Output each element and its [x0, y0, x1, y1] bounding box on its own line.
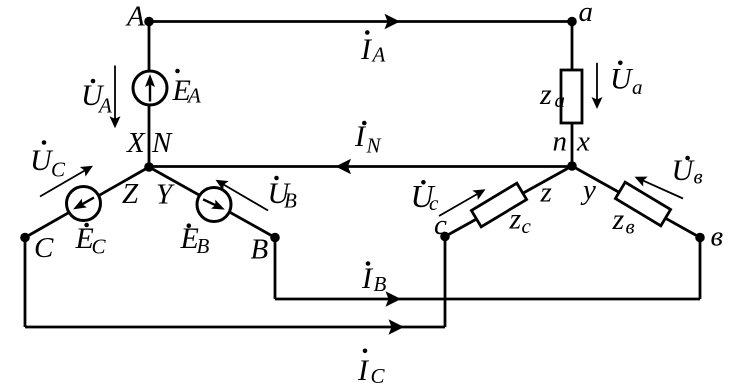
- current arrow IC: [389, 319, 405, 335]
- svg-text:C: C: [92, 235, 107, 259]
- impedance zv: [615, 182, 670, 226]
- node XN star point: [144, 162, 154, 172]
- svg-text:U: U: [610, 63, 634, 96]
- svg-text:в: в: [626, 215, 635, 239]
- impedance zc: [471, 183, 526, 227]
- wire v down: [699, 238, 702, 300]
- svg-text:a: a: [579, 0, 594, 28]
- svg-text:n: n: [553, 126, 568, 158]
- label IC: [357, 349, 386, 386]
- wire B to v: [275, 298, 700, 301]
- label IN: [354, 120, 382, 158]
- label Uc: [411, 178, 440, 215]
- node v: [695, 233, 705, 243]
- svg-text:C: C: [371, 364, 386, 386]
- svg-text:y: y: [580, 174, 596, 206]
- svg-text:A: A: [186, 84, 201, 108]
- svg-text:C: C: [51, 158, 66, 182]
- wire A to a (top line): [149, 20, 572, 23]
- label IB: [361, 261, 387, 296]
- svg-text:C: C: [34, 232, 54, 264]
- node C: [20, 233, 30, 243]
- svg-text:x: x: [576, 126, 590, 158]
- svg-text:c: c: [434, 209, 447, 241]
- svg-text:B: B: [284, 189, 297, 213]
- svg-text:N: N: [151, 127, 173, 159]
- node c: [440, 232, 450, 242]
- EMF source EB: [197, 188, 231, 222]
- svg-text:a: a: [555, 88, 566, 112]
- svg-text:Z: Z: [122, 178, 139, 210]
- current arrow IB: [386, 291, 402, 307]
- wire c down: [444, 237, 447, 328]
- wire neutral N to n: [149, 165, 572, 168]
- voltage arrow UA: [110, 66, 121, 129]
- label Ua: [610, 61, 643, 100]
- label Uv: [672, 154, 703, 189]
- svg-text:A: A: [371, 43, 386, 67]
- svg-text:z: z: [540, 177, 552, 209]
- wire a vertical (a to x): [571, 22, 574, 167]
- svg-text:z: z: [612, 203, 625, 236]
- impedance za: [561, 70, 582, 123]
- svg-text:A: A: [125, 1, 145, 33]
- voltage arrow UB: [213, 175, 268, 210]
- EMF source EC: [67, 187, 101, 221]
- node a: [567, 17, 577, 27]
- svg-text:a: a: [632, 75, 643, 99]
- voltage arrow Uv: [632, 172, 683, 199]
- wire y to v diagonal: [572, 166, 700, 238]
- label EB: [180, 222, 210, 258]
- svg-text:z: z: [509, 203, 522, 236]
- EMF source EA: [133, 71, 167, 105]
- label UB: [268, 176, 298, 213]
- node A: [144, 17, 154, 27]
- voltage arrow UC: [40, 161, 96, 196]
- label IA: [360, 30, 386, 66]
- voltage arrow Ua: [592, 63, 603, 109]
- svg-text:X: X: [126, 127, 146, 159]
- svg-text:B: B: [197, 234, 210, 258]
- svg-text:N: N: [366, 134, 382, 158]
- svg-text:z: z: [539, 78, 552, 111]
- node nx star point: [567, 161, 577, 171]
- wire A vertical (A to X): [148, 22, 151, 168]
- node B: [270, 233, 280, 243]
- wire Z to C diagonal: [25, 167, 149, 238]
- label EC: [75, 222, 107, 259]
- wire z to c diagonal: [445, 166, 572, 237]
- wire C down: [24, 238, 27, 328]
- svg-text:A: A: [97, 94, 112, 118]
- label UA: [81, 79, 112, 118]
- current arrow IN: [336, 159, 352, 175]
- voltage arrow Uc: [439, 185, 488, 216]
- current arrow IA: [385, 14, 401, 30]
- label EA: [172, 69, 202, 108]
- svg-text:в: в: [711, 221, 724, 253]
- svg-text:B: B: [251, 234, 269, 266]
- wire bottom C to c: [25, 326, 445, 329]
- svg-text:B: B: [374, 272, 387, 296]
- label UC: [30, 140, 66, 181]
- svg-text:в: в: [694, 165, 703, 189]
- svg-text:c: c: [522, 214, 532, 238]
- wire B down: [274, 238, 277, 300]
- wire Y to B diagonal: [149, 167, 275, 238]
- svg-text:U: U: [672, 154, 696, 187]
